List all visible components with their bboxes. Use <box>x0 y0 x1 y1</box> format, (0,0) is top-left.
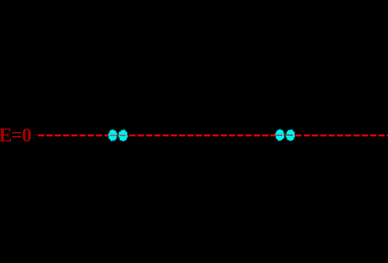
svg-text:E=0: E=0 <box>0 124 32 146</box>
